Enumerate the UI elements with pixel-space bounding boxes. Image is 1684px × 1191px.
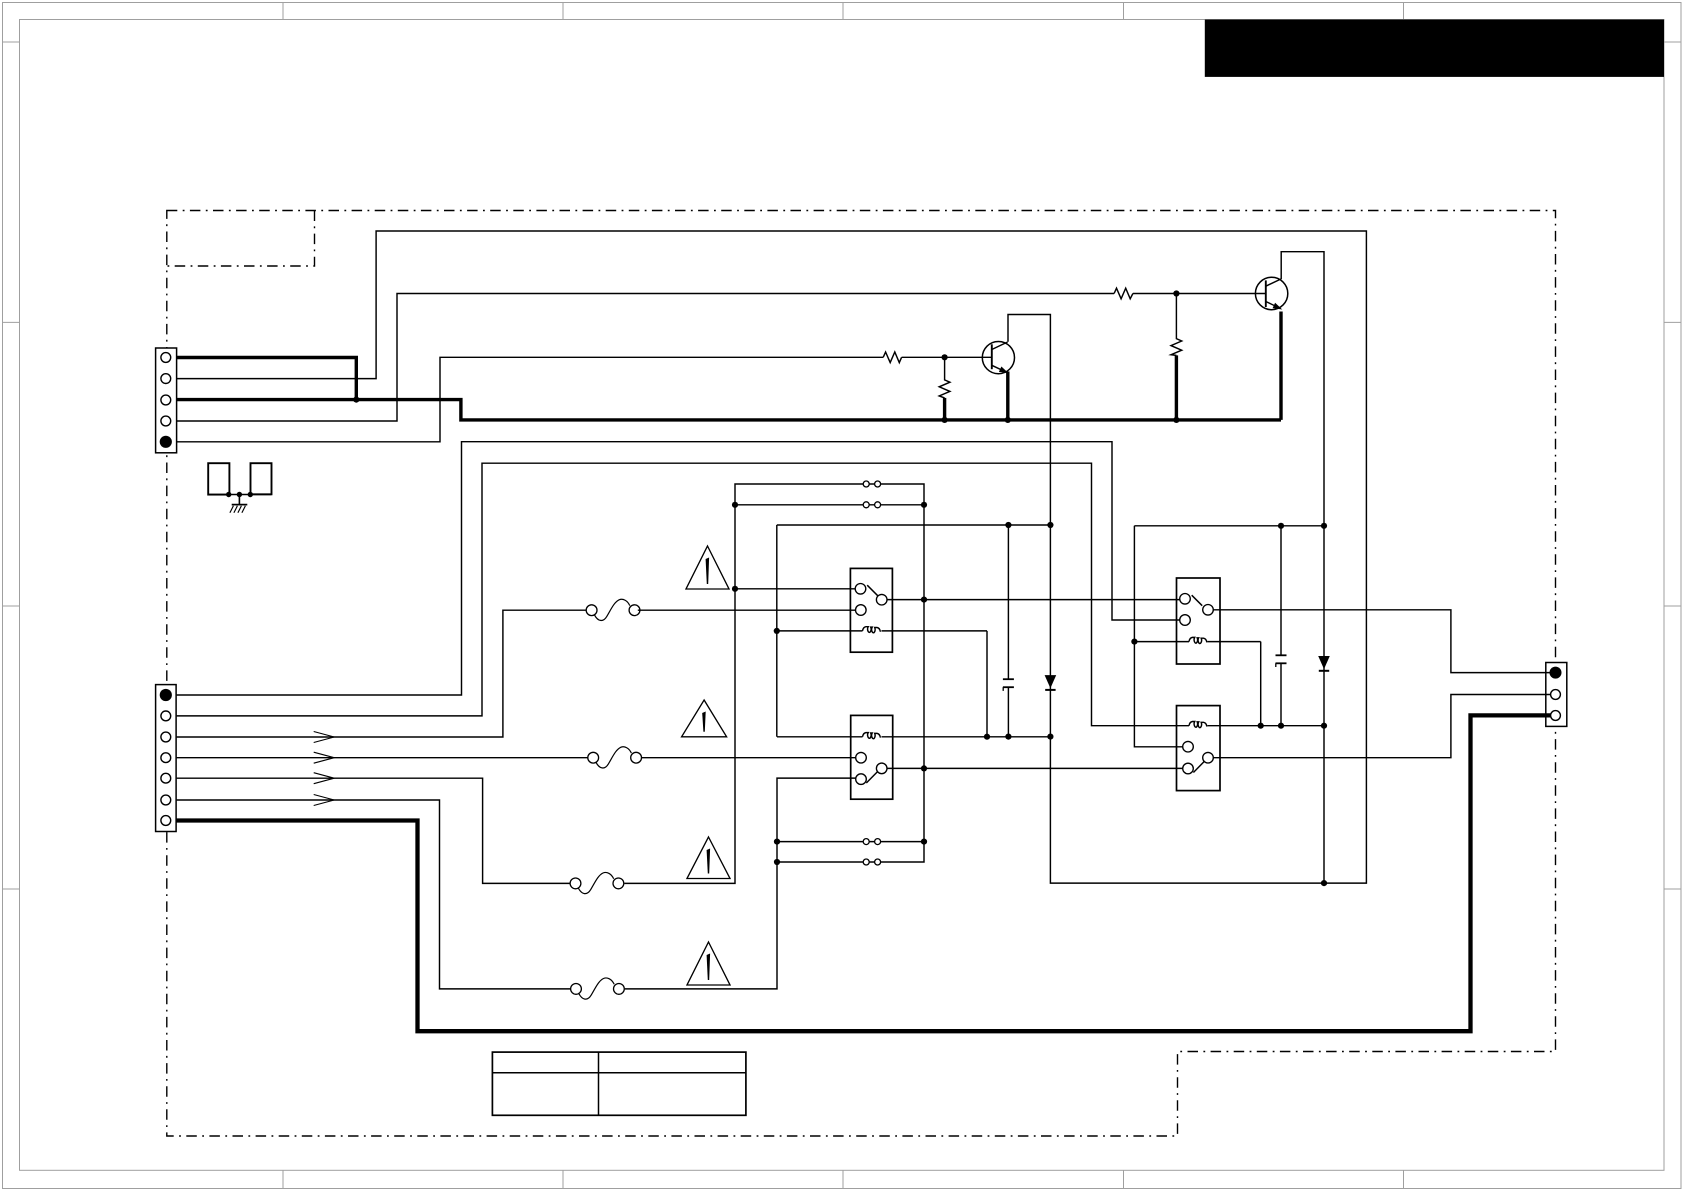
relay K4 contact blade <box>1193 761 1204 772</box>
junction node R4-bus <box>1173 417 1179 423</box>
relay K1 body <box>850 568 892 652</box>
connector CN1 pin 5 (filled) <box>160 436 172 448</box>
junction node K3 coil tap <box>1131 639 1137 645</box>
junction node sw col K1 out <box>921 597 927 603</box>
junction dots on shield bond <box>226 492 253 497</box>
junction node F3 riser K1 feed <box>732 586 738 592</box>
wire relay K1 coil return corner <box>986 631 988 737</box>
wire CN1 pin2 loop via top rail to collector cross-line <box>177 231 1367 883</box>
junction node C2 bottom rail <box>1278 723 1284 729</box>
relay K2 body <box>851 715 893 799</box>
fuse F4 <box>571 978 625 999</box>
title block (redacted black) <box>1205 20 1664 77</box>
connector CN3 pin 3 <box>1551 711 1561 721</box>
service contact pair 4 <box>863 859 880 865</box>
connector CN1 body <box>156 348 177 453</box>
fuse F2 <box>588 747 642 768</box>
relay K3 coil <box>1134 637 1260 643</box>
wire CN1 pin4 to Q2 base rail <box>177 294 1266 422</box>
wire service contact row 2 <box>735 504 924 506</box>
junction node C2 top rail <box>1278 523 1284 529</box>
transistor Q2 base bar <box>1265 280 1267 307</box>
wire CN2 pin4 to fuse F2 <box>177 757 588 759</box>
connector CN3 pin 2 <box>1551 690 1561 700</box>
connector CN3 pin 1 (filled) <box>1550 667 1562 679</box>
relay K1 contact 1 <box>855 584 866 595</box>
wire fuse F2 to relay K2 contact <box>641 757 856 759</box>
capacitor C2 plates <box>1276 655 1287 667</box>
relay K2 contact 3 <box>856 774 867 785</box>
revision table <box>492 1052 746 1115</box>
wire coil common riser right / K4 contact1 feed <box>1134 526 1182 747</box>
wire CN2 pin3 to fuse F1 <box>177 610 587 737</box>
service contact pair 2 <box>863 502 880 508</box>
junction node K3 coil return <box>1258 723 1264 729</box>
junction node Q2 base <box>1173 290 1179 296</box>
resistor R2 (Q1 base pulldown) <box>939 357 950 420</box>
wire fuse F3 riser and service-contact loop <box>624 484 924 883</box>
wire CN2 pin6 to fuse F4 <box>177 800 571 989</box>
warning triangle 2 <box>682 700 727 737</box>
junction node Q1 emitter-bus <box>1005 417 1011 423</box>
wire relay K3 output to CN3 pin1 <box>1213 610 1550 673</box>
junction node R2-bus <box>942 417 948 423</box>
transistor Q1 body <box>982 342 1014 374</box>
ground stem <box>238 495 240 505</box>
shield box 1 <box>208 463 229 494</box>
junction node F4 riser row3 <box>774 839 780 845</box>
wire relay coil common rail (left) <box>777 524 1051 526</box>
relay K4 body <box>1177 706 1221 791</box>
junction node C1 bottom rail <box>1005 734 1011 740</box>
connector CN1 pin 3 <box>161 395 171 405</box>
connector CN2 pin 3 <box>161 732 171 742</box>
transistor Q1 emitter stroke with arrow <box>992 365 1009 373</box>
transistor Q1 base bar <box>991 344 993 369</box>
service contact pair 1 <box>863 481 880 487</box>
junction node F4 riser row4 <box>774 859 780 865</box>
wire relay K3 coil return corner <box>1260 642 1262 726</box>
capacitor C1 leads <box>1007 525 1009 737</box>
relay K2 coil <box>777 733 880 739</box>
ground symbol <box>230 505 247 513</box>
resistor R3 (Q2 base, series) <box>1114 288 1133 299</box>
junction node coil common K1 <box>774 628 780 634</box>
junction node D2 top rail <box>1321 523 1327 529</box>
connector CN1 pin 4 <box>161 416 171 426</box>
warning triangle 3 <box>687 837 730 879</box>
junction node K1 coil return <box>984 734 990 740</box>
wire relay K2 coil return rail <box>882 736 1051 738</box>
relay K1 contact 3 <box>856 605 867 616</box>
wire fuse F1 to relay K1 contact <box>638 609 856 611</box>
transistor Q2 emitter thick lead <box>1279 312 1282 420</box>
relay K1 coil <box>777 627 987 633</box>
wire relay K1 output to relay K3 <box>887 599 1180 601</box>
junction node Q1 base <box>942 354 948 360</box>
service contact pair 3 <box>863 839 880 845</box>
wire CN1 pin3 thick bus to emitters <box>177 400 1281 420</box>
relay K3 body <box>1177 578 1221 664</box>
relay K3 contact 1 <box>1180 594 1191 605</box>
transistor Q2 emitter stroke with arrow <box>1266 302 1283 310</box>
fuse F1 <box>586 599 640 620</box>
connector CN2 pin 7 <box>161 816 171 826</box>
junction node sw col K2 out <box>921 765 927 771</box>
relay K3 contact blade <box>1192 595 1203 606</box>
relay K1 contact blade <box>867 585 878 596</box>
relay K4 contact 3 <box>1183 763 1194 774</box>
junction node C1 top rail <box>1005 522 1011 528</box>
shield box 2 <box>251 463 272 494</box>
diode D1 <box>1045 675 1057 690</box>
transistor Q1 collector stroke <box>992 342 1008 350</box>
wire service contact row 3 <box>777 841 924 843</box>
junction node D2 bottom rail <box>1321 723 1327 729</box>
wire CN2 pin1 loop to relay K3 contact <box>177 442 1180 695</box>
resistor R1 (Q1 base, series) <box>883 352 901 363</box>
wire fuse F4 riser to relay K2 contact 3 <box>625 778 856 989</box>
diode D2 <box>1318 656 1330 671</box>
capacitor C1 plates <box>1003 679 1014 691</box>
warning triangle 4 <box>687 942 730 985</box>
wire CN1 pin5 to Q1 base rail <box>177 357 992 442</box>
wire relay K4 coil return rail <box>1208 725 1325 727</box>
junction node A bus/CN1-1 <box>353 397 359 403</box>
transistor Q2 body <box>1255 277 1287 309</box>
connector CN2 pin 5 <box>161 773 171 783</box>
warning triangle 1 <box>686 546 729 589</box>
junction node sw col row3 <box>921 839 927 845</box>
wire node to relay K1 contact 1 <box>735 588 855 590</box>
connector CN1 pin 2 <box>161 374 171 384</box>
junction node F3 riser row2 <box>732 502 738 508</box>
junction node sw col row2 <box>921 502 927 508</box>
transistor Q2 collector stroke and loop to diode column <box>1266 252 1324 883</box>
connector CN3 body <box>1546 663 1567 727</box>
relay K2 contact blade <box>866 771 878 783</box>
connector CN1 pin 1 <box>161 353 171 363</box>
wire CN2 pin5 to fuse F3 <box>177 778 570 883</box>
connector CN2 pin 2 <box>161 711 171 721</box>
resistor R4 (Q2 base pulldown) <box>1171 294 1182 420</box>
relay K2 contact 2 <box>876 763 887 774</box>
connector CN2 pin 6 <box>161 795 171 805</box>
wire relay K2 output to relay K4 <box>887 767 1183 769</box>
wire CN1 pin1 thick feed <box>177 358 357 400</box>
junction node D1 bottom rail <box>1047 734 1053 740</box>
relay K4 contact 1 <box>1183 741 1194 752</box>
module boundary (dash-dot frame) <box>167 211 1556 1137</box>
connector CN2 body <box>156 685 177 832</box>
relay K3 contact 3 <box>1180 615 1191 626</box>
wire relay coil common rail (right) <box>1134 525 1324 527</box>
junction node D1 top rail <box>1047 522 1053 528</box>
relay K2 contact 1 <box>856 752 867 763</box>
relay K4 contact 2 <box>1203 752 1214 763</box>
connector CN2 pin 1 (filled) <box>160 689 172 701</box>
relay K3 contact 2 <box>1203 605 1214 616</box>
capacitor C2 leads <box>1280 526 1282 726</box>
transistor Q1 emitter thick lead <box>1006 372 1009 420</box>
inline connector arrows on CN2 harness <box>314 732 335 806</box>
relay K1 contact 2 <box>876 594 887 605</box>
connector CN2 pin 4 <box>161 753 171 763</box>
relay K4 coil <box>1189 722 1207 728</box>
fuse F3 <box>570 872 624 893</box>
wire coil common riser <box>776 525 778 737</box>
wire CN2 pin2 loop to relay K4 coil <box>177 463 1189 726</box>
wire ground bus (CN2 pin7 to CN3 pin3) <box>176 715 1550 1031</box>
junction node D2 cross-line <box>1321 880 1327 886</box>
module boundary label box (dash-dot) <box>167 211 315 267</box>
wire relay K4 output to CN3 pin2 <box>1213 695 1550 758</box>
shield bond wire <box>208 494 271 496</box>
